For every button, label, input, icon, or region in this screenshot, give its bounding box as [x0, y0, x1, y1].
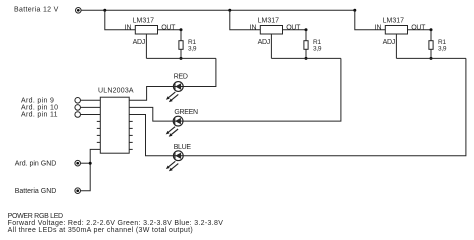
- svg-text:All three LEDs at 350mA per ch: All three LEDs at 350mA per channel (3W …: [8, 227, 193, 234]
- svg-text:Batteria 12 V: Batteria 12 V: [14, 6, 59, 13]
- svg-text:Ard. pin GND: Ard. pin GND: [15, 161, 57, 168]
- svg-text:Ard. pin 9: Ard. pin 9: [21, 98, 54, 105]
- svg-text:GREEN: GREEN: [174, 109, 198, 116]
- svg-text:ULN2003A: ULN2003A: [98, 87, 134, 94]
- svg-text:BLUE: BLUE: [174, 144, 192, 151]
- svg-text:Batteria GND: Batteria GND: [15, 188, 57, 195]
- svg-text:Ard. pin 11: Ard. pin 11: [21, 112, 58, 119]
- svg-text:RED: RED: [174, 73, 188, 80]
